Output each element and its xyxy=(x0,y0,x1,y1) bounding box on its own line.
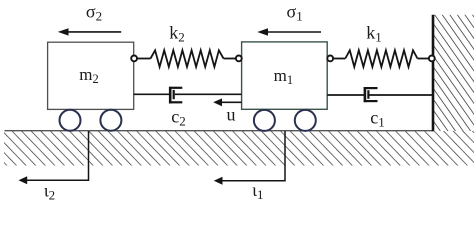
rod to wall xyxy=(369,94,432,96)
cup bottom flange xyxy=(169,101,182,103)
rod to m1 xyxy=(175,93,242,95)
vertical reference line xyxy=(88,131,90,180)
ground hatch band xyxy=(4,131,474,166)
k1 left end circle xyxy=(327,56,333,62)
svg-text:u: u xyxy=(227,105,236,125)
wall hatch region xyxy=(434,15,474,131)
displacement marker iota2 xyxy=(19,131,90,184)
cup left wall xyxy=(364,87,367,102)
cup top flange xyxy=(364,87,378,89)
spring k2 xyxy=(137,50,236,67)
wheel m1 right xyxy=(295,110,316,131)
rod from m1 xyxy=(327,94,364,96)
horizontal line xyxy=(27,179,90,181)
force arrow sigma1 xyxy=(257,28,321,35)
k2 right end circle xyxy=(236,56,242,62)
arrowhead xyxy=(19,176,28,184)
force arrow sigma2 xyxy=(58,28,121,35)
rod from m2 xyxy=(134,93,170,95)
k2 left end circle xyxy=(131,56,137,62)
horizontal line xyxy=(222,180,286,182)
ground line xyxy=(5,130,434,132)
arrowhead xyxy=(214,177,223,185)
wheel m2 left xyxy=(60,110,81,131)
wall xyxy=(432,15,435,132)
wheel m1 left xyxy=(254,110,275,131)
wheel m2 right xyxy=(100,110,121,131)
damper c2 xyxy=(134,87,242,104)
control arrow u xyxy=(213,98,241,106)
cup top flange xyxy=(169,87,182,89)
mass m2 box xyxy=(48,42,134,109)
cup bottom flange xyxy=(364,100,378,102)
displacement marker iota1 xyxy=(214,131,286,185)
spring k1 xyxy=(333,50,428,67)
damper c1 xyxy=(327,87,432,102)
vertical reference line xyxy=(284,131,286,181)
piston plate xyxy=(367,90,369,99)
k1 right end circle at wall xyxy=(429,56,435,62)
piston plate xyxy=(173,90,175,99)
mass m1 box xyxy=(242,42,328,109)
cup left wall xyxy=(169,87,172,104)
